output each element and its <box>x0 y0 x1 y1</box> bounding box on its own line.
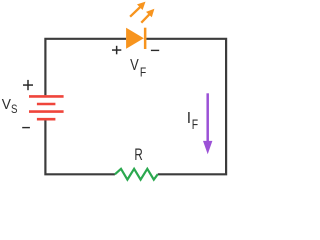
svg-text:R: R <box>134 146 142 164</box>
svg-text:S: S <box>11 102 18 116</box>
svg-text:F: F <box>140 65 146 80</box>
svg-text:V: V <box>130 57 139 74</box>
svg-text:I: I <box>187 110 191 127</box>
svg-text:F: F <box>192 116 198 132</box>
svg-text:V: V <box>2 96 11 113</box>
